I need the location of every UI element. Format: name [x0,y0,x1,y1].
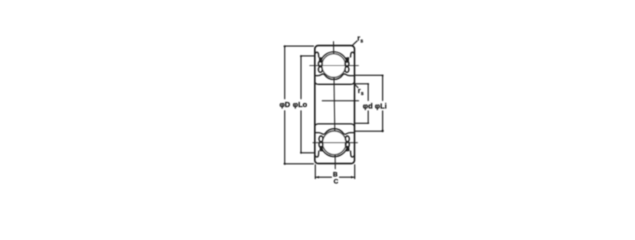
rs top leader [353,41,358,45]
top shield left [318,61,322,67]
bottom ball centerline [313,142,358,144]
svg-text:φLo: φLo [293,100,308,109]
bottom shield anchor right [346,146,349,151]
top shield right [345,61,349,67]
bearing outer outline [315,46,355,164]
vertical centerline [334,42,336,169]
bore horizontal centerline [322,100,358,102]
svg-text:φLi: φLi [375,102,387,111]
bottom bore line with chamfers [315,124,354,126]
phiLo dimension line [301,56,314,153]
bottom outer raceway [315,151,319,157]
phiD dimension line [285,46,314,164]
svg-text:C: C [334,179,339,186]
top bore line with chamfers [315,82,354,84]
svg-text:s: s [360,38,363,44]
rs mid leader [355,85,358,88]
top ball centerline [310,65,359,67]
top shield anchor left [319,58,322,63]
svg-text:φD: φD [280,100,291,109]
top shield anchor right [346,58,349,63]
svg-text:B: B [333,171,338,178]
phid dimension line [355,84,369,124]
top inner ring lands + groove [315,74,355,80]
svg-text:φd: φd [363,102,373,111]
top ball [322,54,346,78]
svg-text:s: s [361,91,364,97]
bottom inner ring lands + groove [315,129,355,135]
bottom shield left [319,136,323,142]
labels [280,35,387,185]
top outer raceway [315,52,319,57]
bottom shield right [345,136,349,142]
bottom shield anchor left [320,146,323,151]
bottom ball [323,131,347,155]
B/C dimension [315,165,354,179]
phiLi dimension line [355,75,383,131]
